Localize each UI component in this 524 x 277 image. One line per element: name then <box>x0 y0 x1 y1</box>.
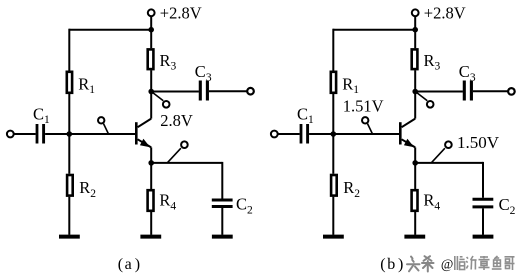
svg-text:(: ( <box>380 256 385 273</box>
svg-text:b: b <box>387 256 395 273</box>
svg-text:1.51V: 1.51V <box>343 97 384 116</box>
svg-text:(: ( <box>118 256 123 273</box>
svg-text:): ) <box>398 256 403 273</box>
svg-text:2.8V: 2.8V <box>160 111 193 130</box>
svg-text:): ) <box>135 256 140 273</box>
svg-text:@: @ <box>441 257 453 272</box>
svg-text:1.50V: 1.50V <box>457 133 500 152</box>
svg-text:a: a <box>125 256 132 273</box>
